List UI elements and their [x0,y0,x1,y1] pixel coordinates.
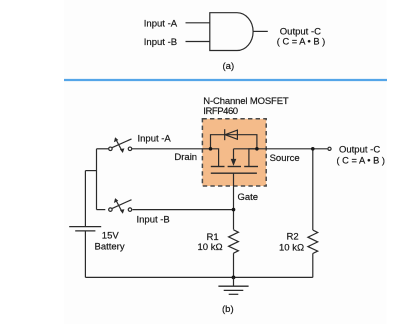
switch S1 arrowheads [114,137,125,153]
MOSFET Q1 gate electrode [211,172,257,174]
wire output C (gate a) [253,30,267,32]
wire input B (gate a) [186,41,211,43]
svg-text:( C = A • B ): ( C = A • B ) [337,156,385,166]
battery BT1 plates [69,227,101,231]
node ground junction dot [232,276,236,280]
node output junction dot [311,147,315,151]
switch S2 (Input -B) [109,200,132,212]
wire battery tap horizontal [85,170,96,172]
svg-text:(a): (a) [223,61,235,72]
svg-text:Battery: Battery [95,241,125,252]
svg-text:Input -B: Input -B [144,37,177,48]
wire arrow top to source stub [234,148,257,150]
node drain dot [209,147,213,151]
MOSFET Q1 body arrow line [233,149,235,160]
wire switch B to gate node [133,209,234,211]
divider line [64,79,387,81]
wire R2 bottom [312,253,314,277]
wire left feed vertical [96,149,98,210]
wire switch A to drain [132,148,211,150]
output terminal circle [328,147,331,150]
body diode D1 triangle [225,130,237,139]
svg-text:Output -C: Output -C [339,145,380,156]
MOSFET Q1 body arrowhead [231,159,237,166]
wire gate node to R1 [233,253,235,277]
node source dot [255,147,259,151]
MOSFET Q1 source stub [249,149,257,167]
svg-text:Input -B: Input -B [137,214,170,225]
wire battery bottom [84,231,86,278]
wire feed left of switch B [97,209,106,211]
svg-text:R2: R2 [287,232,299,243]
wire ground rail [85,276,312,278]
wire gate lead [233,173,235,229]
svg-text:(b): (b) [222,304,234,315]
MOSFET Q1 channel segment left [211,166,225,168]
MOSFET Q1 highlight box [202,119,266,186]
MOSFET Q1 channel segment middle [228,166,241,168]
wire output node down to R2 [312,149,314,230]
wire feed left of switch A [97,148,109,150]
ground symbol [218,277,248,294]
resistor R1 [229,230,239,253]
resistor R2 [308,230,318,253]
node gate junction dot [232,208,236,212]
wire input A (gate a) [186,22,211,24]
body diode D1 cathode bar [224,129,226,140]
wire battery top [84,171,86,227]
svg-text:10 kΩ: 10 kΩ [279,242,304,253]
svg-text:15V: 15V [102,230,120,241]
svg-text:( C = A • B ): ( C = A • B ) [277,37,325,47]
svg-text:IRFP460: IRFP460 [203,106,238,117]
svg-text:Drain: Drain [174,152,197,163]
AND gate U1 [210,13,253,51]
svg-text:Gate: Gate [238,192,259,203]
body diode D1 wire [211,135,257,149]
svg-text:Input -A: Input -A [138,134,172,145]
MOSFET Q1 drain stub [211,149,219,167]
switch S2 arrowheads [114,198,125,214]
svg-text:10 kΩ: 10 kΩ [198,242,223,253]
MOSFET Q1 channel segment right [244,166,258,168]
svg-text:Source: Source [270,153,300,164]
svg-text:Input -A: Input -A [144,18,178,29]
wire source to output [257,148,328,150]
switch S1 (Input -A) [109,139,132,151]
